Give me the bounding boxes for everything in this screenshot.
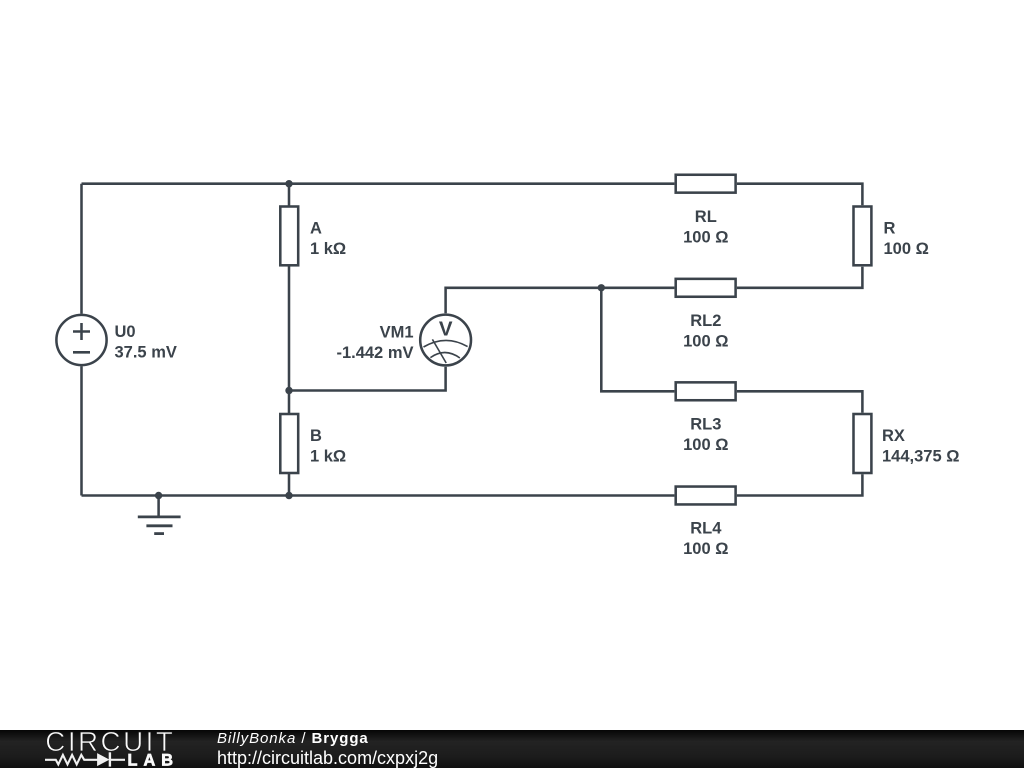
svg-text:B: B bbox=[310, 427, 322, 445]
wire node to voltmeter bottom bbox=[289, 367, 446, 391]
svg-text:RL4: RL4 bbox=[690, 520, 722, 538]
svg-text:A: A bbox=[310, 220, 322, 238]
wire B bottom to bottom rail bbox=[288, 474, 291, 496]
svg-text:37.5 mV: 37.5 mV bbox=[115, 344, 177, 362]
resistor RX bbox=[854, 414, 960, 473]
resistor RL3 bbox=[676, 382, 736, 454]
wire RL2 left to junction node bbox=[601, 287, 674, 290]
svg-text:RL2: RL2 bbox=[690, 312, 721, 330]
wire R bottom to RL2 bbox=[737, 267, 863, 288]
wire top rail bbox=[82, 182, 675, 185]
wire bottom rail bbox=[82, 494, 675, 497]
wire left rail bottom bbox=[80, 366, 83, 495]
wire RL to right rail bbox=[737, 184, 863, 206]
wire junction node down to RL3 bbox=[601, 288, 674, 392]
svg-text:100 Ω: 100 Ω bbox=[683, 540, 728, 558]
wire junction node to voltmeter top bbox=[446, 288, 602, 314]
svg-text:100 Ω: 100 Ω bbox=[683, 228, 728, 246]
wire RL3 right to RX top bbox=[737, 391, 863, 412]
node junction VM1/RL2/RL3 bbox=[598, 284, 605, 291]
resistor A bbox=[280, 207, 346, 266]
svg-text:RX: RX bbox=[882, 427, 905, 445]
CircuitLab logo bbox=[0, 730, 210, 768]
wire top rail to resistor A bbox=[288, 184, 291, 206]
voltmeter VM1 bbox=[336, 315, 471, 366]
node B bottom / bottom rail junction bbox=[285, 492, 292, 499]
svg-text:RL3: RL3 bbox=[690, 416, 721, 434]
resistor RL bbox=[676, 175, 736, 247]
svg-text:100 Ω: 100 Ω bbox=[683, 436, 728, 454]
node ground junction bbox=[155, 492, 162, 499]
svg-text:144,375 Ω: 144,375 Ω bbox=[882, 448, 959, 466]
node top rail / resistor A junction bbox=[285, 180, 292, 187]
wire left rail top bbox=[80, 184, 83, 314]
footer bar bbox=[0, 730, 1024, 768]
svg-text:U0: U0 bbox=[115, 323, 136, 341]
svg-text:100 Ω: 100 Ω bbox=[884, 240, 929, 258]
wire RX bottom to RL4 bbox=[737, 474, 863, 495]
svg-text:100 Ω: 100 Ω bbox=[683, 332, 728, 350]
svg-text:R: R bbox=[884, 220, 896, 238]
svg-text:1 kΩ: 1 kΩ bbox=[310, 448, 346, 466]
resistor RL2 bbox=[676, 279, 736, 351]
svg-text:LAB: LAB bbox=[128, 751, 174, 767]
wire A bottom to B top bbox=[288, 267, 291, 414]
resistor R bbox=[854, 207, 929, 266]
voltage source U0 bbox=[56, 315, 176, 365]
resistor B bbox=[280, 414, 346, 473]
svg-text:-1.442 mV: -1.442 mV bbox=[336, 344, 413, 362]
svg-text:VM1: VM1 bbox=[380, 324, 414, 342]
svg-text:RL: RL bbox=[695, 208, 717, 226]
node between A and B (voltmeter tap) bbox=[285, 387, 292, 394]
svg-text:1 kΩ: 1 kΩ bbox=[310, 240, 346, 258]
svg-text:V: V bbox=[439, 317, 453, 340]
resistor RL4 bbox=[676, 487, 736, 559]
ground bbox=[138, 496, 181, 534]
